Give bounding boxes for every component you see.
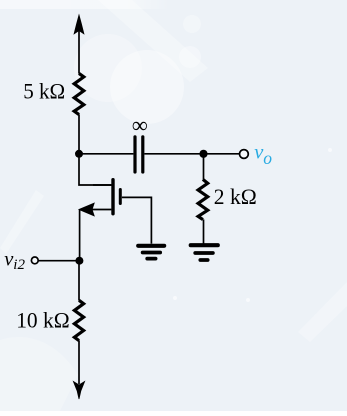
svg-text:2 kΩ: 2 kΩ: [214, 184, 257, 209]
ground (Q1 gate): [138, 246, 164, 259]
capacitor C1 left plate: [133, 137, 136, 172]
net label vo: [254, 141, 272, 168]
wire: node A down and right to Q1 drain: [79, 154, 111, 185]
terminal vo (open circle): [240, 150, 249, 159]
wire: Q1 source down to node C: [79, 210, 81, 261]
svg-text:o: o: [263, 148, 272, 168]
resistor R3 (2 kOhm): [198, 179, 208, 219]
transistor Q1 gate bar: [119, 190, 122, 204]
transistor Q1 channel bar: [111, 180, 114, 214]
resistor R2 (10 kOhm): [74, 300, 83, 340]
node A (drain / C1 junction): [75, 150, 83, 158]
wire: C1 right plate through node B to vo terminal: [144, 153, 239, 155]
wire: Q1 gate lead to ground: [122, 197, 151, 243]
svg-text:∞: ∞: [132, 112, 148, 137]
wire: vi2 terminal to node C: [38, 260, 79, 262]
supply arrow down (bottom rail): [73, 382, 84, 400]
ground (R3): [191, 245, 218, 260]
wire: top supply rail to R1: [78, 29, 80, 74]
wire: node A to capacitor C1 left plate: [79, 153, 133, 155]
wire: R1 bottom to node A: [78, 114, 80, 153]
transistor Q1 source arrow: [80, 204, 94, 216]
transistor Q1 drain lead: [93, 184, 111, 186]
svg-text:10 kΩ: 10 kΩ: [16, 307, 69, 332]
resistor R1 (5 kOhm): [74, 73, 84, 114]
node C (vi2 / source / R2 junction): [75, 257, 83, 265]
supply arrow up (top rail): [74, 15, 84, 34]
wire: R3 bottom to ground: [203, 219, 205, 243]
wire: node C down to R2 top: [78, 261, 80, 301]
svg-text:i2: i2: [13, 257, 25, 273]
node B (C1 / R3 / vo junction): [199, 150, 207, 158]
transistor Q1 source lead: [92, 209, 111, 211]
terminal vi2 (open circle): [31, 257, 38, 264]
wire: R2 bottom to lower supply arrow: [78, 340, 80, 384]
net label vi2: [4, 249, 25, 273]
capacitor C1 right plate: [141, 137, 144, 172]
wire: node B down to R3 top: [203, 154, 205, 180]
svg-text:5 kΩ: 5 kΩ: [23, 79, 65, 104]
